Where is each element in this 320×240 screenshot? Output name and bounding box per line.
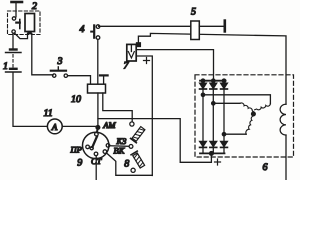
ignition coil resistor 10: [88, 84, 106, 93]
wire field winding to bottom edge: [285, 135, 287, 180]
left leg coil: [240, 103, 253, 112]
bottom leg coil: [246, 116, 253, 134]
relay coil: [25, 14, 35, 34]
diode D4 bottom: [200, 141, 207, 153]
svg-text:9: 9: [77, 158, 82, 169]
ignition switch 9: [83, 132, 110, 158]
relay dashed enclosure: [8, 11, 41, 35]
star centre node: [252, 112, 256, 116]
node AM junction: [96, 126, 100, 130]
ammeter 11: [47, 119, 62, 134]
wire switch 4 down to coil 10: [97, 39, 99, 84]
fuse 8 upper: [130, 122, 146, 143]
right leg coil: [255, 104, 271, 110]
svg-text:1: 1: [3, 61, 8, 72]
battery 1: [6, 50, 22, 73]
main bus AM to alternator: [98, 119, 211, 163]
rectifier bottom bus: [200, 152, 225, 154]
svg-text:ВК: ВК: [114, 146, 126, 156]
wire relay to button 3: [32, 34, 53, 75]
svg-text:5: 5: [191, 7, 196, 18]
wire switch 4 to fuse 5: [99, 25, 191, 27]
diode D1 top: [200, 81, 207, 95]
rectifier top bus: [200, 80, 226, 82]
wire ST contact to bottom edge: [95, 156, 97, 180]
svg-text:7: 7: [124, 61, 130, 72]
wire regulator to top bus: [138, 33, 286, 104]
plus label at alternator output: [215, 159, 221, 165]
phase tap C: [222, 133, 225, 136]
svg-text:3: 3: [57, 56, 63, 67]
wire battery to ammeter: [13, 73, 47, 127]
svg-text:4: 4: [80, 24, 85, 35]
relay terminal lower: [12, 30, 15, 33]
wire 10 to fuse 8 upper: [103, 93, 132, 122]
svg-text:A: A: [51, 122, 58, 132]
terminal circle of lower fuse: [129, 145, 133, 149]
wire AM node to switch stub: [96, 129, 99, 132]
wire KZ contact to fuse terminal: [110, 145, 129, 148]
node dots on top bus: [201, 79, 204, 82]
wire relay lower terminal to coil bottom: [14, 33, 27, 39]
wire regulator plus down: [136, 56, 152, 176]
alternator 6 dashed enclosure: [195, 75, 294, 157]
wire fuse 5 to T terminal: [199, 25, 223, 27]
svg-text:8: 8: [124, 159, 129, 170]
diode D2 top: [210, 81, 217, 104]
wire regulator to rectifier (field supply): [136, 50, 213, 80]
diode D3 top: [221, 81, 228, 134]
T-bar terminal right of fuse 5: [224, 21, 227, 32]
svg-text:10: 10: [71, 94, 81, 105]
relay contact lever: [16, 20, 20, 29]
diode D5 bottom: [210, 141, 217, 153]
svg-text:6: 6: [263, 162, 268, 173]
diode D6 bottom: [221, 141, 228, 153]
plus label near regulator: [144, 58, 150, 64]
svg-text:АМ: АМ: [102, 120, 116, 130]
phase tap B: [212, 102, 215, 105]
regulator 7: [127, 44, 136, 61]
field winding: [280, 104, 286, 135]
svg-text:ПР: ПР: [70, 145, 82, 155]
wire button to coil rect 10: [68, 76, 90, 84]
terminal T above coil 10: [100, 75, 108, 84]
wire relay terminal to battery: [12, 33, 14, 48]
wire ammeter to AM node: [62, 125, 95, 127]
svg-text:КЗ: КЗ: [116, 136, 128, 146]
svg-text:11: 11: [44, 108, 53, 119]
phase tap A: [201, 93, 204, 96]
node plus output: [210, 152, 214, 156]
wire VK contact down and around: [106, 153, 152, 175]
starter terminal T-bar top-left: [12, 2, 23, 17]
wire 10 to AM node: [97, 93, 99, 126]
stator winding star: [240, 103, 270, 134]
relay terminal upper: [12, 17, 15, 20]
svg-text:2: 2: [32, 1, 37, 12]
regulator terminal square: [137, 43, 141, 47]
